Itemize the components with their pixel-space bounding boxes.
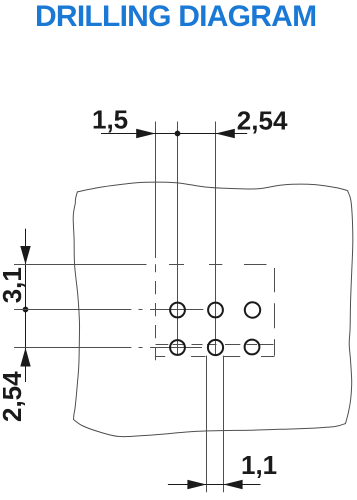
svg-text:1,5: 1,5 <box>92 105 128 135</box>
centerline row1 y=309.8 (long segment) <box>14 309 131 311</box>
hole A1 top-left <box>170 303 185 318</box>
top arrow pointing left at x=215 <box>216 129 235 139</box>
hole B3 bottom-right <box>245 340 260 355</box>
extension line y=264.2 <box>14 264 147 266</box>
centerline row1 short dash <box>139 309 143 311</box>
left arrow pointing down at y=264.2 <box>20 246 30 265</box>
svg-text:DRILLING DIAGRAM: DRILLING DIAGRAM <box>35 0 316 33</box>
bottom tangent extension line right x=223.1 <box>223 356 225 493</box>
dashed outline bottom edge <box>155 356 274 358</box>
hole B2 bottom-middle <box>208 340 223 355</box>
dashed outline top edge <box>169 264 267 266</box>
extension line col rect-left x=155.8 (top solid part) <box>155 122 157 259</box>
dashed inner line y=344.5 <box>156 344 274 346</box>
extension line col2 x=215.0 <box>215 122 217 356</box>
centerline row2 through hole 4 <box>150 347 202 349</box>
hole A3 top-right <box>245 302 260 317</box>
hole A2 top-middle <box>208 303 223 318</box>
extension line col1 x=177.2 <box>177 122 179 356</box>
plate outline (broken-out PCB section, wavy edges) <box>73 182 353 437</box>
bottom tangent extension line left x=206.7 <box>206 356 208 493</box>
bottom arrow pointing right at x=206.7 <box>187 480 206 490</box>
centerline row1 through hole 1 <box>150 309 203 311</box>
svg-text:2,54: 2,54 <box>237 106 288 136</box>
centerline row2 y=347.8 (long segment) <box>14 347 131 349</box>
hole B1 bottom-left <box>170 340 185 355</box>
dashed outline right edge <box>274 268 276 356</box>
svg-text:3,1: 3,1 <box>0 267 27 303</box>
svg-text:2,54: 2,54 <box>0 371 27 422</box>
bottom dimension line <box>168 484 261 486</box>
svg-text:1,1: 1,1 <box>241 450 277 480</box>
dashed outline left edge <box>155 264 157 360</box>
top dimension line <box>101 133 247 135</box>
left arrow pointing up at y=348.3 <box>20 348 30 367</box>
left dimension vertical line <box>25 229 27 382</box>
bottom arrow pointing left at x=223.1 <box>224 480 243 490</box>
centerline row2 short dash <box>139 347 143 349</box>
top arrow pointing right at x=155.8 <box>136 129 155 139</box>
left dimension dot <box>23 307 29 313</box>
top dimension dot <box>175 131 181 137</box>
